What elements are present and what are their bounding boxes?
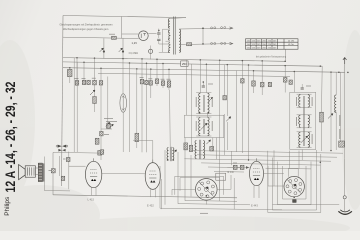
wire h y140.5 to V2: [133, 139, 153, 141]
oscillator core: [198, 140, 200, 159]
wire mains top: [179, 27, 231, 30]
coupling wire V1 to V2: [102, 172, 145, 174]
loudspeaker LS1 magnet box: [25, 166, 35, 177]
wire v x163: [162, 64, 164, 89]
wire right edge down: [344, 72, 346, 159]
capacitor C17 mid: [107, 124, 111, 129]
capacitor C1 on feed wire: [112, 36, 117, 39]
IF1 core: [203, 95, 205, 112]
capacitor C14: [150, 69, 152, 80]
mains plug prong top: [230, 27, 233, 29]
wire v x224.7: [224, 114, 226, 155]
svg-text:± 0,4 MΩ: ± 0,4 MΩ: [129, 53, 139, 55]
wire T3 to S2: [264, 173, 284, 175]
IF3 trimmer arrow: [301, 136, 308, 143]
plug P2 triangles: [58, 149, 65, 152]
capacitor C18 mid: [98, 151, 102, 156]
wire v x274: [273, 150, 275, 186]
junction dot right: [330, 150, 331, 151]
wire vertical x121.6 from top frame: [121, 17, 123, 39]
trimmer capacitor C33: [106, 122, 110, 126]
capacitor C26: [289, 80, 292, 84]
wire right riser: [344, 64, 346, 72]
svg-text:bei geänderter Netzspannung: bei geänderter Netzspannung: [256, 56, 287, 59]
volume control with arrow: [328, 114, 333, 119]
capacitor C27 above IF3: [301, 88, 304, 89]
fuse lamp right: [343, 196, 346, 199]
wire v x53: [52, 153, 54, 196]
wire nested loop G around S1: [175, 176, 224, 195]
antenna arrow top right: [343, 58, 347, 65]
IF3 winding pair 3 secondary: [308, 132, 310, 147]
IF transformer IF3 screen box: [290, 92, 316, 149]
choke value labels: [339, 115, 341, 139]
IF1 bottom wires: [196, 113, 211, 115]
wire fuse to earth: [344, 199, 346, 211]
loudspeaker LS1 cone: [19, 165, 26, 180]
wire rectifier anode left: [122, 33, 139, 35]
wire v x74: [73, 58, 75, 152]
tube V1 (output) envelope: [85, 161, 101, 187]
shield box right of S1: [216, 173, 226, 180]
capacitor C21: [210, 146, 214, 151]
wire v x191 bottom: [190, 155, 192, 197]
wire mains bottom cont: [192, 43, 232, 46]
electrolytic capacitor C2 with arrow: [100, 48, 104, 52]
wire v x157: [156, 59, 158, 86]
wire h y191 short: [45, 190, 71, 192]
wire nested loop A around S2: [283, 166, 307, 199]
electrolytic capacitor C3 with arrow: [119, 48, 123, 52]
power transformer T1 core: [173, 17, 175, 55]
wire v x107.8: [107, 77, 109, 129]
wire vertical x123: [122, 39, 124, 59]
wire v x129.5: [129, 63, 131, 152]
voltage selector plug contacts top: [211, 27, 213, 29]
wire v x178 bottom: [177, 152, 179, 204]
trimmer capacitor C8: [87, 80, 90, 84]
wire lamp top: [150, 46, 152, 50]
wire bus B1 to table: [284, 49, 286, 61]
capacitor C35: [223, 96, 227, 100]
mains plug prong bottom: [230, 42, 233, 44]
resistor R1: [69, 68, 71, 70]
capacitor C13: [146, 63, 148, 80]
resistor R11: [95, 138, 99, 144]
wire transformer top tap: [170, 17, 186, 20]
wire lamp down to bus: [150, 53, 152, 59]
grid resistor blob below S2: [292, 199, 296, 202]
earth arrow bottom right: [338, 210, 352, 215]
wire nested loop B around S2: [278, 162, 312, 205]
capacitor C20 at IF1 top: [202, 86, 205, 87]
capacitor C5 smoothing: [157, 39, 160, 40]
svg-text:E 443: E 443: [251, 204, 258, 208]
wire long h6: [214, 171, 244, 174]
tube V2 (detector) envelope: [145, 163, 160, 190]
svg-text:L 415: L 415: [88, 198, 95, 202]
wire v x123 lower: [122, 112, 124, 152]
fuse F1: [187, 43, 192, 46]
wire long h2: [197, 155, 337, 157]
output transformer core: [42, 163, 44, 181]
wire v x165 bottom: [164, 150, 166, 205]
svg-text:Philips: Philips: [4, 197, 11, 216]
tube V3 (RF) envelope: [250, 161, 264, 185]
resistor R2: [93, 97, 97, 104]
wire v x59.6: [59, 156, 61, 176]
label 500: [104, 134, 109, 136]
junction dots bottom: [206, 195, 208, 197]
capacitor C12: [141, 59, 143, 79]
plug P1 triangles: [58, 145, 67, 148]
voltage selector plug contacts bottom: [211, 43, 213, 45]
IF1 top wires: [196, 92, 211, 94]
wire v x331: [330, 72, 332, 150]
wire IF can bottom to socket: [301, 150, 303, 161]
tube socket S1: [196, 179, 218, 201]
wire into V3: [227, 166, 249, 168]
wire v x186.5: [186, 60, 188, 116]
wire horizontal feed y38: [63, 37, 139, 38]
frame left border wire: [62, 16, 64, 187]
wire v x77.2: [76, 62, 78, 152]
power transformer T1 primary winding: [168, 19, 169, 29]
svg-text:20 195: 20 195: [288, 41, 295, 43]
tuning indicator tube: [120, 94, 127, 112]
bus B3 (rail 3): [63, 68, 345, 73]
IF3 core: [303, 96, 305, 146]
wire v x101: [100, 68, 102, 160]
resistor R10: [61, 176, 65, 180]
capacitor C6: [75, 81, 79, 86]
bus B1 (HT rail): [63, 58, 285, 62]
tube V2 pin wires: [150, 189, 152, 197]
capacitor C25: [283, 78, 287, 83]
IF transformer IF1 secondary coil: [208, 93, 210, 113]
oscillator coil assembly L6: [167, 148, 169, 161]
wire h y166 to tube: [69, 165, 86, 167]
choke coil L5: [335, 95, 337, 112]
resistor R5: [184, 143, 188, 150]
capacitor C15: [155, 79, 159, 84]
capacitor C32: [241, 79, 245, 83]
IF3 winding pair 1 primary: [299, 95, 301, 108]
resistor R7: [253, 71, 255, 81]
wire v x268: [267, 166, 269, 186]
capacitor C28 right: [339, 141, 345, 147]
svg-text:12 A -14, - 26, - 29, - 32: 12 A -14, - 26, - 29, - 32: [3, 82, 18, 193]
capacitor C29 small: [66, 157, 70, 161]
wire v x191.5: [191, 64, 193, 145]
capacitor C23: [261, 61, 263, 82]
resistor R9 box: [51, 169, 55, 173]
output transformer T2 winding: [38, 163, 42, 181]
junction dots on buses: [76, 57, 78, 59]
resistor R8: [321, 66, 324, 112]
wire nested loop E around S2: [268, 151, 321, 213]
wire to earth: [344, 159, 346, 196]
wire vertical x104: [103, 38, 105, 58]
label 01: [208, 83, 213, 85]
wire loop side x161.6: [161, 179, 163, 209]
wire h y129: [101, 128, 112, 130]
wire v x169: [168, 69, 170, 90]
wire v x206 top: [205, 64, 207, 92]
trimmer arrow on L6: [172, 150, 176, 154]
svg-text:1,2V: 1,2V: [132, 41, 138, 45]
IF3 winding pair 1 secondary: [308, 95, 310, 108]
wire long h5b: [266, 167, 312, 170]
IF2 core: [203, 119, 205, 134]
wire transformer left taps: [163, 28, 170, 30]
wire v x84: [83, 62, 85, 85]
wire h y200.5: [185, 200, 237, 203]
wire h y152.5: [53, 151, 101, 154]
power transformer T1 secondary winding: [179, 29, 181, 52]
wire voltage selector link: [202, 28, 204, 44]
wire long h4: [201, 163, 320, 165]
resistor R6: [189, 145, 192, 151]
wire v x236.4: [235, 71, 237, 152]
component row labels: [75, 78, 79, 80]
svg-text:E 452: E 452: [147, 204, 154, 208]
IF1 trimmer arrow: [208, 97, 213, 102]
wire loop side x234.2: [233, 178, 235, 210]
IF transformer IF2 secondary coil: [208, 118, 210, 136]
wire nested loop F around S1: [180, 178, 220, 191]
IF3 winding pair 2 primary: [299, 115, 301, 127]
wire S1 connections: [172, 188, 196, 190]
IF3 winding pair 2 secondary: [308, 115, 310, 127]
wire v x77: [76, 58, 78, 86]
wire v x340.6: [340, 72, 342, 141]
capacitor C30: [100, 150, 103, 154]
frame top border wire: [63, 16, 186, 18]
trimmer arrow osc: [206, 140, 210, 144]
label 01 right: [306, 85, 311, 87]
capacitor C9: [93, 80, 97, 85]
svg-text:Wechselspannungen gegen Chassi: Wechselspannungen gegen Chassis gem.: [63, 27, 109, 31]
plug arrow into V3: [246, 166, 249, 169]
wire v x44.5: [44, 157, 46, 191]
resistor R4: [167, 81, 171, 87]
capacitor C11: [99, 81, 103, 85]
IF2 trimmer arrow: [201, 123, 207, 129]
IF1 winding value labels: [196, 97, 212, 107]
IF3 connection wires: [297, 93, 312, 95]
wire v x68.8: [68, 152, 70, 190]
IF3 winding value labels: [296, 97, 312, 144]
capacitor C4 smoothing: [157, 33, 160, 34]
tube V1 pin wires: [91, 188, 93, 196]
wire v x94.5: [94, 58, 96, 96]
oscillator coil L3: [195, 141, 197, 159]
wire v x212.8: [212, 138, 214, 151]
wire v x172 bottom: [219, 150, 221, 201]
capacitor C22 with arrow: [226, 117, 231, 122]
wire v x142 extend: [141, 90, 143, 152]
capacitor C31 left of V3: [240, 165, 244, 169]
wire V2 stem: [152, 141, 154, 163]
IF transformer IF2 primary coil: [199, 118, 201, 136]
wire h y203.6: [178, 204, 250, 205]
wire v x160 bottom: [159, 166, 161, 208]
svg-text:W-Trfr: W-Trfr: [288, 43, 294, 46]
wire v x185 bottom: [184, 138, 186, 201]
wire v x285 down: [284, 66, 286, 93]
wire v x248.5: [248, 65, 250, 160]
wire mains bottom: [179, 43, 186, 45]
IF2 winding value labels: [196, 121, 212, 131]
capacitor C24: [268, 82, 271, 86]
dial lamp LA1: [149, 49, 153, 53]
tube V3 pin wires: [253, 185, 255, 198]
box 250 on bus: [181, 61, 188, 66]
tube socket S2: [284, 176, 304, 196]
bus B2 (rail 2): [63, 62, 322, 66]
IF transformer IF1 primary coil: [199, 93, 201, 113]
wire long h3: [184, 159, 331, 161]
wire v x231.7: [231, 151, 233, 165]
resistor R12 left of V3: [233, 165, 237, 169]
bottom bus wire y195: [53, 195, 237, 198]
rectifier tube U4: [139, 31, 149, 41]
trimmer capacitor C7: [82, 80, 85, 84]
wire cap to transformer: [158, 40, 160, 44]
voltage table: [246, 39, 299, 49]
wire nested loop D top of S2: [288, 168, 298, 176]
wire long h5a: [208, 166, 244, 169]
IF transformer IF2 screen box: [184, 115, 223, 137]
voltage table entries: [247, 41, 295, 50]
bus B4 (lower rail): [98, 73, 290, 76]
wire v x242.4: [241, 61, 243, 153]
wire v x123 upper: [122, 59, 124, 94]
wire v x219.7: [219, 60, 221, 150]
wire v x294: [293, 72, 295, 93]
wire v x169 extend: [169, 90, 172, 147]
wire h y208: [160, 208, 282, 210]
wire rectifier cathode right to cap: [148, 33, 156, 35]
svg-text:Gleichspannungen mit Drehspuli: Gleichspannungen mit Drehspulinstr. geme…: [60, 23, 114, 27]
capacitor C16: [161, 81, 165, 86]
label below S1: [200, 212, 208, 214]
resistor R3: [136, 69, 138, 133]
wire v x146.5 extend: [146, 85, 148, 152]
wire S2 top stubs: [289, 151, 291, 169]
wire v x216.4: [215, 138, 217, 160]
IF2 wires: [196, 116, 211, 118]
label cluster mid-left: [104, 118, 113, 120]
capacitor C34: [100, 131, 104, 136]
speaker wires: [35, 167, 38, 169]
wire long h1: [191, 151, 343, 154]
wire nested loop C around S2: [273, 150, 340, 210]
IF3 winding pair 3 primary: [299, 132, 301, 147]
oscillator coil L4: [203, 141, 205, 159]
variable capacitor C10 with arrow: [90, 90, 95, 95]
